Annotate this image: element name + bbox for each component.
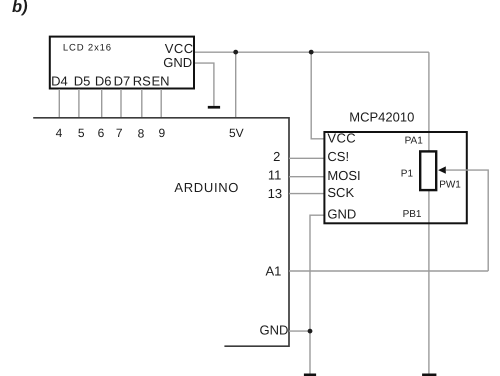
wire VCC net from LCD VCC to PA1 column: [194, 51, 429, 53]
wire LCD D7 to Arduino pin 7: [120, 89, 122, 118]
wire LCD D4 to Arduino pin 4: [58, 89, 60, 118]
svg-text:P1: P1: [401, 168, 414, 179]
wire LCD RS to Arduino pin 8: [141, 89, 143, 118]
ground symbol PB1: [422, 374, 436, 376]
svg-text:LCD 2x16: LCD 2x16: [63, 43, 112, 54]
wire LCD GND pin to ground: [194, 63, 214, 106]
svg-text:4: 4: [56, 126, 63, 140]
wire Arduino pin11 to MCP MOSI: [289, 176, 324, 178]
potentiometer P1 body: [420, 151, 436, 190]
junction dot GND node: [308, 329, 313, 334]
LCD module box: [50, 37, 194, 89]
svg-text:D7: D7: [114, 74, 131, 89]
svg-text:VCC: VCC: [327, 131, 356, 146]
svg-text:PW1: PW1: [439, 180, 461, 191]
svg-text:D5: D5: [74, 74, 91, 89]
junction dot 5V node: [233, 50, 238, 55]
svg-text:8: 8: [138, 127, 145, 141]
wire 5V drop to Arduino top: [235, 52, 237, 118]
svg-text:VCC: VCC: [165, 41, 194, 56]
svg-text:13: 13: [268, 186, 282, 201]
svg-text:SCK: SCK: [327, 185, 354, 200]
svg-text:9: 9: [159, 126, 166, 140]
ground symbol main GND: [304, 374, 316, 376]
junction dot MCP VCC node: [309, 50, 314, 55]
wire LCD D6 to Arduino pin 6: [101, 89, 103, 118]
svg-text:PB1: PB1: [403, 209, 422, 220]
wire MCP GND pin to ground: [310, 215, 324, 374]
svg-text:ARDUINO: ARDUINO: [174, 180, 239, 195]
svg-text:CS!: CS!: [327, 149, 349, 164]
svg-text:GND: GND: [327, 207, 356, 222]
svg-text:GND: GND: [163, 55, 192, 70]
wire PW1 wiper to A1: [446, 170, 488, 271]
svg-text:7: 7: [116, 126, 123, 140]
wire VCC drop to MCP VCC pin: [311, 52, 324, 139]
svg-text:D6: D6: [95, 74, 112, 89]
svg-text:PA1: PA1: [405, 136, 424, 147]
svg-text:5: 5: [78, 126, 85, 140]
Arduino outline: [33, 118, 289, 346]
svg-text:GND: GND: [260, 322, 289, 337]
svg-text:MOSI: MOSI: [327, 168, 360, 183]
svg-text:b): b): [12, 0, 28, 16]
svg-text:EN: EN: [152, 74, 170, 89]
svg-text:6: 6: [98, 126, 105, 140]
wire Arduino A1 to PW1: [289, 270, 488, 272]
svg-text:2: 2: [273, 149, 280, 164]
svg-text:11: 11: [268, 167, 282, 182]
MCP42010 box: [324, 132, 466, 223]
svg-text:MCP42010: MCP42010: [349, 110, 414, 125]
wire LCD EN to Arduino pin 9: [160, 89, 162, 118]
wire PA1/PB1 column: [428, 52, 430, 374]
ground symbol LCD GND: [208, 106, 220, 109]
wire Arduino pin2 to MCP CS: [289, 157, 324, 159]
wiper arrow: [438, 166, 446, 173]
wire LCD D5 to Arduino pin 5: [78, 89, 80, 118]
wire Arduino GND to ground net: [289, 330, 310, 332]
svg-text:RS: RS: [133, 74, 151, 89]
wire Arduino pin13 to MCP SCK: [289, 193, 324, 195]
svg-text:5V: 5V: [229, 126, 244, 140]
svg-text:D4: D4: [51, 74, 68, 89]
svg-text:A1: A1: [265, 263, 281, 278]
